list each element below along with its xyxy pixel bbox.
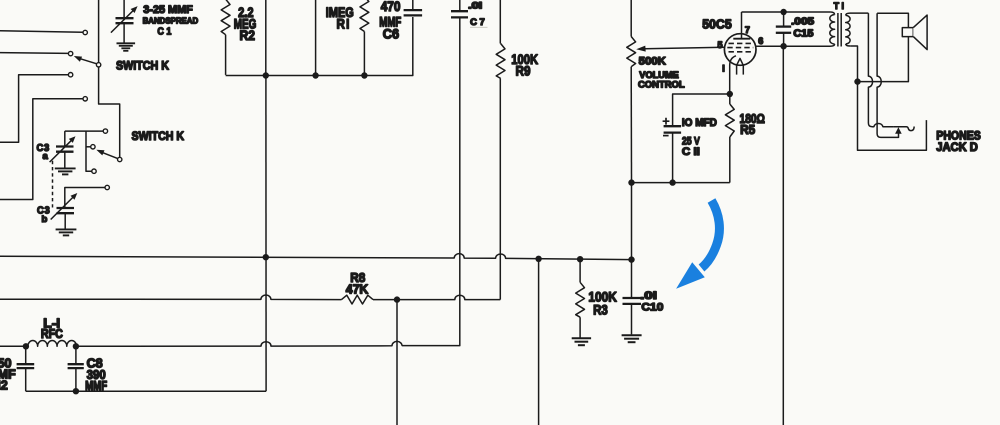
switch K pivot 1 xyxy=(96,63,100,67)
capacitor C8 xyxy=(75,346,77,364)
svg-text:47K: 47K xyxy=(346,283,369,297)
svg-text:5: 5 xyxy=(718,40,723,50)
minus sign C11 xyxy=(663,135,669,137)
svg-text:RI: RI xyxy=(337,16,351,31)
wire (RFC line east with hops) xyxy=(76,341,402,346)
jack D switch arrow xyxy=(895,127,902,134)
svg-text:C6: C6 xyxy=(383,27,400,42)
svg-text:CONTROL: CONTROL xyxy=(638,80,685,91)
node xyxy=(263,254,269,260)
ground (C1) xyxy=(117,42,136,44)
wire xyxy=(0,52,68,55)
svg-text:C10: C10 xyxy=(641,302,663,314)
node (junction) xyxy=(361,72,367,78)
svg-text:C 1: C 1 xyxy=(157,26,171,37)
switch K contact 4 xyxy=(83,97,87,101)
speaker xyxy=(902,28,913,37)
switch K2b contact xyxy=(105,185,109,189)
svg-text:RFC: RFC xyxy=(41,327,63,341)
wire xyxy=(99,67,120,157)
svg-text:a: a xyxy=(43,151,49,162)
node xyxy=(780,9,786,15)
ground (C3b) xyxy=(56,228,77,230)
wire (jack wire B with jog) xyxy=(877,13,898,137)
wire (x=265.9 vertical) xyxy=(265,76,267,392)
transformer T1 core xyxy=(837,13,839,47)
svg-text:I: I xyxy=(722,64,725,74)
node (R8/vertical junction) xyxy=(394,296,400,302)
wire xyxy=(538,259,540,425)
svg-text:C II: C II xyxy=(682,146,700,158)
switch K arm 1 xyxy=(79,58,97,64)
wire (jack wire A with jogs) xyxy=(868,13,893,127)
blue callout arrow xyxy=(702,201,720,269)
resistor R3 xyxy=(579,259,581,282)
wire xyxy=(373,295,500,299)
wire xyxy=(65,130,103,132)
arrow of C3a xyxy=(50,140,72,162)
pin 6 lead and label xyxy=(756,45,784,47)
plate of 50C5 xyxy=(733,38,750,40)
wire xyxy=(630,0,632,37)
wire xyxy=(265,0,267,76)
inductor L-1 RFC xyxy=(28,340,77,346)
transformer T1 secondary xyxy=(846,13,850,15)
svg-text:JACK D: JACK D xyxy=(936,141,978,154)
capacitor C3b (variable) xyxy=(57,207,75,209)
capacitor C10 xyxy=(631,260,633,298)
wire (jack sleeve arm) xyxy=(858,82,927,151)
resistor R2 xyxy=(221,0,230,35)
switch K2 contact middle xyxy=(91,145,95,149)
svg-text:b: b xyxy=(42,214,48,225)
resistor R9 xyxy=(499,0,501,44)
switch K contact 2 xyxy=(68,51,72,55)
switch K2 contact bottom xyxy=(92,169,96,173)
node xyxy=(577,256,583,262)
wire xyxy=(673,94,730,126)
svg-text:7: 7 xyxy=(745,25,750,35)
svg-text:.0I: .0I xyxy=(640,290,657,302)
wire (grid bus) xyxy=(226,17,413,76)
node xyxy=(628,256,634,262)
cathode of 50C5 xyxy=(730,56,736,65)
wire (branch to middle+bottom contacts) xyxy=(86,131,92,171)
svg-text:C 7: C 7 xyxy=(470,17,485,27)
svg-text:470: 470 xyxy=(381,0,401,14)
svg-text:R5: R5 xyxy=(740,123,755,137)
capacitor C7 xyxy=(459,0,461,10)
wire xyxy=(0,75,68,143)
capacitor C1 (variable, bandspread) xyxy=(123,0,125,18)
wire xyxy=(98,0,100,63)
heater of 50C5 xyxy=(737,58,744,65)
node (junction) xyxy=(263,72,269,78)
switch K contact 3 xyxy=(68,73,72,77)
node xyxy=(535,256,541,262)
svg-text:6: 6 xyxy=(758,36,763,46)
svg-text:SWITCH K: SWITCH K xyxy=(116,59,169,73)
wire (secondary top lead) xyxy=(850,12,868,14)
svg-text:3-25 MMF: 3-25 MMF xyxy=(143,4,193,16)
arrow of variable capacitor C1 xyxy=(111,10,134,32)
capacitor C6 xyxy=(412,0,414,10)
wire bus1 xyxy=(0,254,632,260)
wire bus2 xyxy=(0,295,342,300)
wire (screen rail to transformer) xyxy=(784,45,830,47)
wire xyxy=(0,345,26,347)
ground (R3) xyxy=(572,337,591,339)
svg-text:T I: T I xyxy=(834,1,844,12)
wire (to bus1) xyxy=(631,183,633,260)
svg-text:500K: 500K xyxy=(639,56,667,68)
svg-text:.0I: .0I xyxy=(468,1,482,11)
ground (C10) xyxy=(622,334,642,336)
capacitor C12 (cut at left edge) xyxy=(25,346,27,364)
svg-text:R2: R2 xyxy=(240,28,256,43)
svg-text:R9: R9 xyxy=(516,63,531,79)
switch K2 pivot xyxy=(118,157,122,161)
svg-text:R3: R3 xyxy=(593,302,608,318)
node xyxy=(628,179,634,185)
node xyxy=(854,78,860,84)
node xyxy=(669,179,675,185)
capacitor C15 xyxy=(783,12,785,26)
svg-text:.005: .005 xyxy=(791,17,815,28)
wire xyxy=(0,31,83,33)
wiper arrow of volume control xyxy=(645,47,725,48)
wire (B+ down to bottom edge) xyxy=(782,46,784,425)
node xyxy=(780,43,786,49)
wire (cathode return) xyxy=(632,182,730,184)
wire (plate to top rail) xyxy=(742,11,784,13)
jack D tip contact (curled) xyxy=(894,127,915,131)
wire (C7 lead down to RFC line) xyxy=(402,17,460,345)
wire (R9 lead to bus2) xyxy=(499,78,501,299)
resistor R1 xyxy=(360,0,369,32)
wire (bottom return line) xyxy=(26,390,266,392)
wire (secondary bottom lead) xyxy=(850,46,857,82)
wire (speaker loop) xyxy=(858,13,909,81)
tube 50C5 envelope xyxy=(724,34,756,66)
capacitor C11 (electrolytic) xyxy=(664,125,682,127)
wire xyxy=(65,188,105,209)
transformer T1 primary xyxy=(830,12,834,15)
dashed gang line C3 xyxy=(52,161,54,208)
wire (cathode down) xyxy=(729,65,731,94)
switch K2 arm xyxy=(102,152,118,158)
node xyxy=(727,91,733,97)
node (junction) xyxy=(312,72,318,78)
svg-text:C15: C15 xyxy=(793,28,814,39)
arrow of C3b xyxy=(51,197,74,220)
svg-text:IO MFD: IO MFD xyxy=(682,117,717,129)
potentiometer 500K volume control xyxy=(627,37,636,67)
node xyxy=(23,343,29,349)
svg-text:BANDSPREAD: BANDSPREAD xyxy=(143,16,199,26)
switch K contact 1 xyxy=(83,30,87,34)
wire xyxy=(0,99,83,200)
svg-text:50C5: 50C5 xyxy=(702,16,732,31)
plus sign C11 xyxy=(663,118,670,125)
grids (dashed) xyxy=(729,42,753,44)
resistor R8 xyxy=(342,295,374,304)
wire (down to bottom edge) xyxy=(396,300,398,425)
wire xyxy=(315,0,317,76)
ground (C3a) xyxy=(55,167,76,169)
resistor R5 xyxy=(729,94,731,104)
node xyxy=(73,343,79,349)
wire (top rail to transformer) xyxy=(784,11,831,13)
capacitor C3a (variable) xyxy=(64,131,66,146)
switch K2 contact top xyxy=(103,129,107,133)
svg-text:I2: I2 xyxy=(0,379,8,393)
svg-text:SWITCH K: SWITCH K xyxy=(132,129,185,143)
node xyxy=(73,388,79,394)
